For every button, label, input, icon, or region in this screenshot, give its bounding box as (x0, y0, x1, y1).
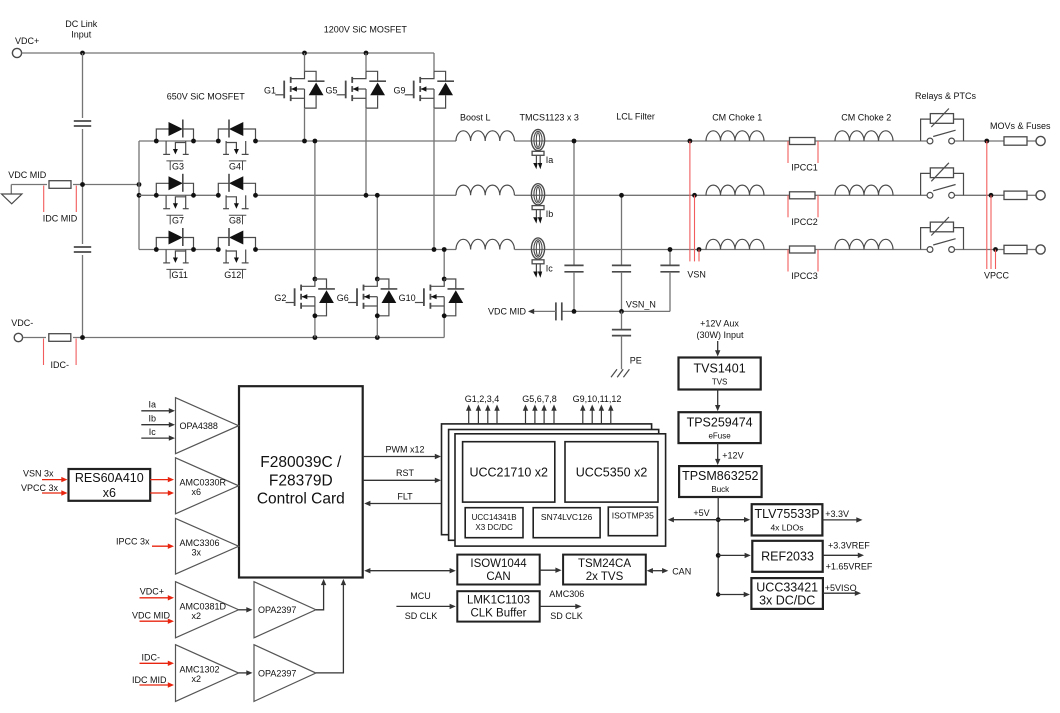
block UCC21710 x2 (463, 442, 555, 502)
svg-text:2x TVS: 2x TVS (586, 571, 624, 583)
svg-text:IDC-: IDC- (142, 653, 161, 663)
transistor G7 (156, 183, 168, 195)
wire G3-G4 link (194, 140, 219, 142)
svg-text:RST: RST (396, 468, 415, 478)
svg-text:UCC14341B: UCC14341B (472, 513, 517, 522)
svg-text:VDC MID: VDC MID (488, 307, 527, 317)
wire bus to G3 row (139, 140, 156, 142)
svg-text:VSN 3x: VSN 3x (23, 468, 54, 478)
transistor G11 (156, 238, 168, 250)
terminal output phase C (1036, 245, 1045, 254)
svg-text:VSN_N: VSN_N (626, 299, 656, 309)
block TPSM863252 Buck (679, 466, 762, 497)
relay and PTC phase B (921, 173, 964, 195)
transistor G6 (376, 195, 378, 279)
ground at VDC MID (10, 185, 12, 195)
svg-text:CLK Buffer: CLK Buffer (470, 608, 526, 620)
wire AMC0381D to OPA2397 (239, 609, 248, 611)
svg-text:VDC+: VDC+ (140, 586, 164, 596)
transistor G1 (304, 53, 306, 71)
block gate driver stack back (442, 424, 652, 535)
svg-text:(30W) Input: (30W) Input (696, 330, 744, 340)
transistor G12 (243, 238, 255, 250)
svg-text:IPCC1: IPCC1 (791, 163, 818, 173)
svg-text:TVS: TVS (712, 378, 728, 387)
wire G7-G8 link (194, 194, 219, 196)
terminal output phase B (1036, 191, 1045, 200)
amplifier AMC1302 x2 (176, 645, 239, 702)
svg-text:TMCS1123 x 3: TMCS1123 x 3 (520, 113, 579, 123)
svg-text:Input: Input (71, 30, 92, 40)
svg-text:TVS1401: TVS1401 (694, 362, 746, 376)
block UCC33421 3x DC/DC (751, 578, 823, 609)
svg-text:IDC MID: IDC MID (132, 675, 167, 685)
svg-text:Control Card: Control Card (257, 491, 345, 508)
wire node VSN_N (562, 310, 670, 312)
svg-text:x6: x6 (192, 487, 202, 497)
current sensor TMCS1123 phase A (531, 129, 544, 150)
wire phase C (256, 249, 457, 251)
svg-text:VPCC 3x: VPCC 3x (21, 483, 59, 493)
svg-text:FLT: FLT (397, 492, 413, 502)
block ISOW1044 CAN (457, 555, 539, 585)
transistor G3 (156, 129, 168, 141)
wire DC link capacitor bus (82, 53, 84, 338)
block RES60A410 x6 (69, 469, 151, 501)
svg-text:F280039C /: F280039C / (260, 454, 342, 471)
capacitor VSN_N to VDC MID (555, 302, 557, 320)
svg-text:4x LDOs: 4x LDOs (770, 523, 803, 533)
terminal output phase A (1036, 136, 1045, 145)
svg-text:G12: G12 (224, 270, 241, 280)
svg-text:G4: G4 (229, 161, 241, 171)
svg-text:UCC5350 x2: UCC5350 x2 (576, 466, 648, 480)
inductor CM choke 2 phase A (835, 131, 893, 141)
svg-text:G1,2,3,4: G1,2,3,4 (465, 394, 500, 404)
block UCC5350 x2 (565, 442, 658, 502)
wire phase B (256, 194, 457, 196)
amplifier AMC0330R x6 (176, 458, 239, 514)
svg-text:Ia: Ia (149, 400, 157, 410)
wire control card to ISOW1044 CAN bidirectional (369, 570, 451, 572)
svg-text:TPSM863252: TPSM863252 (682, 469, 758, 483)
wire +5V to REF2033 (718, 554, 746, 556)
transistor G5 (365, 53, 367, 71)
svg-text:Boost L: Boost L (460, 113, 491, 123)
capacitor DC link lower (73, 244, 92, 255)
svg-text:3x: 3x (192, 547, 202, 557)
svg-text:ISOTMP35: ISOTMP35 (612, 511, 654, 521)
block UCC14341B X3 DC/DC (465, 508, 523, 538)
wire ISOW1044 to TSM24CA (540, 569, 557, 571)
svg-text:eFuse: eFuse (708, 432, 731, 441)
op-amp OPA4388 (176, 398, 239, 454)
shunt resistor IPCC phase C (790, 246, 816, 253)
svg-text:x2: x2 (192, 611, 202, 621)
svg-text:+12V Aux: +12V Aux (700, 319, 739, 329)
svg-text:RES60A410: RES60A410 (75, 471, 144, 485)
svg-text:G8: G8 (229, 216, 241, 226)
svg-text:G11: G11 (172, 270, 188, 280)
fuse phase A (1004, 137, 1027, 145)
svg-text:G10: G10 (399, 293, 416, 303)
block ISOTMP35 (608, 507, 657, 536)
wire +5V to UCC33421 (718, 594, 745, 596)
svg-text:OPA2397: OPA2397 (258, 605, 296, 615)
svg-text:CAN: CAN (672, 567, 691, 577)
svg-text:+5V: +5V (693, 508, 709, 518)
current sensor TMCS1123 phase B (531, 184, 544, 205)
wire bus to G11 row (139, 249, 156, 251)
svg-text:MCU: MCU (410, 591, 431, 601)
wire VDC+ rail (22, 52, 434, 54)
svg-text:Relays & PTCs: Relays & PTCs (915, 91, 977, 101)
svg-text:TSM24CA: TSM24CA (578, 558, 631, 570)
svg-text:TLV75533P: TLV75533P (754, 507, 819, 521)
svg-text:UCC33421: UCC33421 (756, 581, 818, 595)
svg-text:G6: G6 (337, 293, 349, 303)
svg-text:SD CLK: SD CLK (550, 611, 583, 621)
inductor Boost L phase A (456, 131, 514, 141)
transistor G9 (433, 53, 435, 71)
svg-text:IPCC3: IPCC3 (791, 271, 818, 281)
wire lower OPA2397 to control card (316, 583, 344, 673)
svg-text:650V SiC MOSFET: 650V SiC MOSFET (167, 92, 246, 102)
transistor G2 (314, 141, 316, 279)
block REF2033 (752, 541, 822, 572)
inductor Boost L phase C (456, 239, 514, 249)
wire G11-G12 link (194, 249, 219, 251)
svg-text:LCL Filter: LCL Filter (616, 111, 655, 121)
relay and PTC phase A (921, 119, 964, 141)
capacitor LCL phase A (564, 264, 583, 266)
wire AMC1302 to OPA2397 (239, 672, 248, 674)
svg-text:G3: G3 (172, 161, 184, 171)
svg-text:IDC-: IDC- (51, 360, 70, 370)
svg-text:VDC MID: VDC MID (132, 610, 171, 620)
svg-text:IDC MID: IDC MID (43, 214, 78, 224)
fuse phase C (1004, 245, 1027, 253)
svg-text:G2: G2 (274, 293, 286, 303)
svg-text:Ib: Ib (546, 209, 554, 219)
block SN74LVC126 (533, 508, 600, 538)
svg-text:G5,6,7,8: G5,6,7,8 (522, 394, 557, 404)
svg-text:IPCC 3x: IPCC 3x (116, 537, 150, 547)
current sensor TMCS1123 phase C (531, 238, 544, 259)
svg-text:+3.3VREF: +3.3VREF (828, 541, 870, 551)
svg-text:Ic: Ic (149, 427, 157, 437)
svg-text:+5VISO: +5VISO (825, 583, 857, 593)
svg-text:x6: x6 (103, 486, 116, 500)
svg-text:Ia: Ia (546, 155, 554, 165)
svg-text:ISOW1044: ISOW1044 (470, 558, 527, 570)
op-amp OPA2397 upper (254, 582, 316, 638)
shunt resistor IDC MID (47, 180, 73, 189)
amplifier AMC0381D x2 (176, 582, 239, 638)
wire LCL branch phase A (573, 141, 575, 265)
block TPS259474 eFuse (679, 412, 761, 443)
svg-text:VDC+: VDC+ (15, 36, 39, 46)
inductor CM choke 2 phase B (835, 185, 893, 195)
wire TVS1401 to TPS259474 (717, 390, 719, 407)
wire VDC MID rail (11, 184, 139, 186)
shunt resistor IPCC phase B (790, 192, 816, 199)
op-amp OPA2397 lower (254, 645, 316, 702)
wire CAN bidirectional (651, 570, 665, 572)
svg-text:CM Choke 1: CM Choke 1 (712, 113, 762, 123)
svg-text:AMC3306: AMC3306 (180, 538, 220, 548)
svg-text:PWM x12: PWM x12 (385, 445, 424, 455)
wire VDC- rail (23, 337, 445, 339)
svg-text:3x DC/DC: 3x DC/DC (759, 594, 815, 608)
block gate driver stack front (455, 434, 666, 546)
wire LCL branch phase B (621, 195, 623, 265)
svg-text:VSN: VSN (687, 270, 706, 280)
transistor G10 (443, 250, 445, 280)
node VPCC sense taps (984, 139, 989, 144)
capacitor LCL phase B (612, 264, 631, 266)
wire phase A (256, 140, 457, 142)
svg-text:AMC1302: AMC1302 (180, 665, 220, 675)
svg-text:AMC0330R: AMC0330R (180, 477, 227, 487)
transistor G8 (243, 183, 255, 195)
svg-text:+1.65VREF: +1.65VREF (826, 562, 873, 572)
svg-text:VDC-: VDC- (11, 318, 33, 328)
svg-text:F28379D: F28379D (269, 473, 333, 490)
svg-text:CM Choke 2: CM Choke 2 (841, 113, 891, 123)
inductor CM choke 1 phase C (706, 239, 764, 249)
svg-text:SN74LVC126: SN74LVC126 (541, 512, 593, 522)
shunt resistor IDC- (46, 333, 73, 342)
svg-text:+12V: +12V (722, 451, 743, 461)
svg-text:G5: G5 (325, 86, 337, 96)
svg-text:+3.3V: +3.3V (825, 509, 849, 519)
svg-text:TPS259474: TPS259474 (687, 416, 753, 430)
svg-text:VDC MID: VDC MID (8, 170, 47, 180)
svg-text:CAN: CAN (486, 571, 510, 583)
block TSM24CA 2x TVS (563, 555, 646, 585)
svg-text:OPA4388: OPA4388 (180, 421, 218, 431)
svg-text:SD CLK: SD CLK (405, 611, 438, 621)
svg-text:DC Link: DC Link (65, 19, 98, 29)
wire +5V to TLV75533P (718, 519, 745, 521)
svg-text:G9: G9 (393, 86, 405, 96)
svg-text:Ib: Ib (149, 413, 157, 423)
node VSN sense taps (688, 139, 693, 144)
svg-text:AMC0381D: AMC0381D (180, 601, 227, 611)
inductor CM choke 2 phase C (835, 239, 893, 249)
wire LCL branch phase C (669, 250, 671, 266)
ground PE (611, 369, 617, 377)
svg-text:1200V SiC MOSFET: 1200V SiC MOSFET (324, 25, 408, 35)
block TVS1401 TVS (679, 358, 761, 390)
svg-text:OPA2397: OPA2397 (258, 668, 296, 678)
fuse phase B (1004, 191, 1027, 199)
wire aux input to TVS1401 (717, 341, 719, 352)
wire 650V bus vertical (138, 141, 140, 250)
transistor G4 (243, 129, 255, 141)
svg-text:VPCC: VPCC (984, 271, 1010, 281)
svg-text:Ic: Ic (546, 263, 554, 273)
wire RES60A410 to AMC0330R (150, 479, 169, 481)
svg-text:UCC21710 x2: UCC21710 x2 (469, 466, 548, 480)
inductor CM choke 1 phase B (706, 185, 764, 195)
block TLV75533P 4x LDOs (752, 504, 823, 535)
capacitor DC link upper (73, 118, 92, 129)
block gate driver stack middle (449, 430, 659, 541)
svg-text:X3 DC/DC: X3 DC/DC (475, 523, 513, 532)
svg-text:G1: G1 (264, 86, 276, 96)
capacitor LCL phase C (660, 264, 679, 266)
svg-text:AMC306: AMC306 (549, 589, 584, 599)
inductor CM choke 1 phase A (706, 131, 764, 141)
wire +5V rail (717, 497, 719, 595)
wire bus to G7 row (139, 194, 156, 196)
svg-text:Buck: Buck (711, 485, 730, 494)
svg-text:x2: x2 (192, 674, 202, 684)
shunt resistor IPCC phase A (790, 138, 816, 145)
svg-text:REF2033: REF2033 (761, 550, 814, 564)
capacitor VSN_N to PE (621, 311, 623, 329)
relay and PTC phase C (921, 228, 964, 250)
svg-text:IPCC2: IPCC2 (791, 217, 818, 227)
block F280039C / F28379D Control Card (239, 386, 363, 577)
inductor Boost L phase B (456, 185, 514, 195)
svg-text:LMK1C1103: LMK1C1103 (467, 595, 530, 607)
svg-text:G9,10,11,12: G9,10,11,12 (573, 394, 622, 404)
svg-text:PE: PE (630, 356, 642, 366)
wire OPA2397 to control card (316, 583, 324, 610)
block LMK1C1103 CLK Buffer (457, 591, 539, 621)
amplifier AMC3306 3x (176, 518, 239, 574)
svg-text:G7: G7 (172, 216, 184, 226)
svg-text:MOVs & Fuses: MOVs & Fuses (990, 121, 1051, 131)
